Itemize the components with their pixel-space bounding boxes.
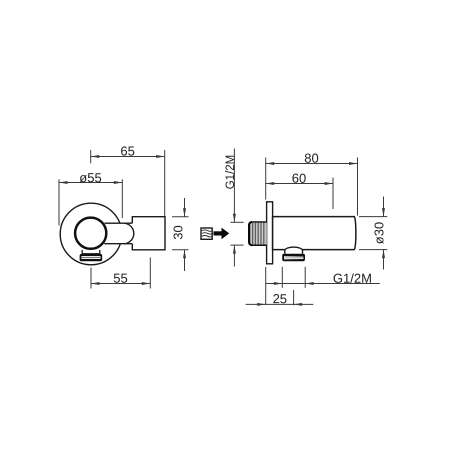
dimension 25 (bottom) [246, 267, 314, 305]
wall hatch icon [201, 228, 212, 239]
socket fillet arc [125, 223, 134, 244]
dimension G1/2M (hose thread, bottom leader) [266, 267, 380, 288]
outlet ball dome (right view) [285, 247, 303, 254]
dimension 65 (top) [91, 150, 165, 216]
svg-text:ø30: ø30 [371, 222, 386, 244]
body cylinder [273, 217, 356, 250]
hose nut knurled band (right view) [282, 254, 305, 262]
dimension 60 [266, 178, 333, 210]
dimension G1/2M (inlet thread, left vertical) [230, 149, 243, 267]
svg-text:55: 55 [113, 271, 127, 286]
ball joint circle [75, 218, 106, 249]
arm (outlet body to wall block) [104, 223, 133, 244]
flange outer circle Ø55 [60, 203, 122, 265]
dimension 30 (left view height) [172, 198, 189, 271]
hose nut neck [82, 250, 100, 254]
svg-text:60: 60 [292, 171, 306, 186]
svg-text:30: 30 [170, 225, 185, 239]
wall block rectangle [132, 217, 165, 250]
svg-text:25: 25 [273, 291, 287, 306]
svg-text:80: 80 [304, 151, 318, 166]
wall flange plate [267, 202, 273, 264]
svg-text:G1/2M: G1/2M [333, 271, 372, 286]
dimension ø55 [59, 179, 122, 225]
svg-text:ø55: ø55 [79, 170, 101, 185]
dimension ø30 (right vertical) [359, 197, 387, 270]
svg-text:G1/2M: G1/2M [225, 155, 237, 190]
dimension 55 (bottom) [91, 258, 150, 289]
threaded inlet stub G1/2M [249, 222, 267, 245]
svg-text:65: 65 [120, 143, 134, 158]
hose nut knurled band [80, 254, 103, 261]
mounting direction arrow [214, 228, 230, 240]
dimension 80 (top) [266, 158, 358, 216]
